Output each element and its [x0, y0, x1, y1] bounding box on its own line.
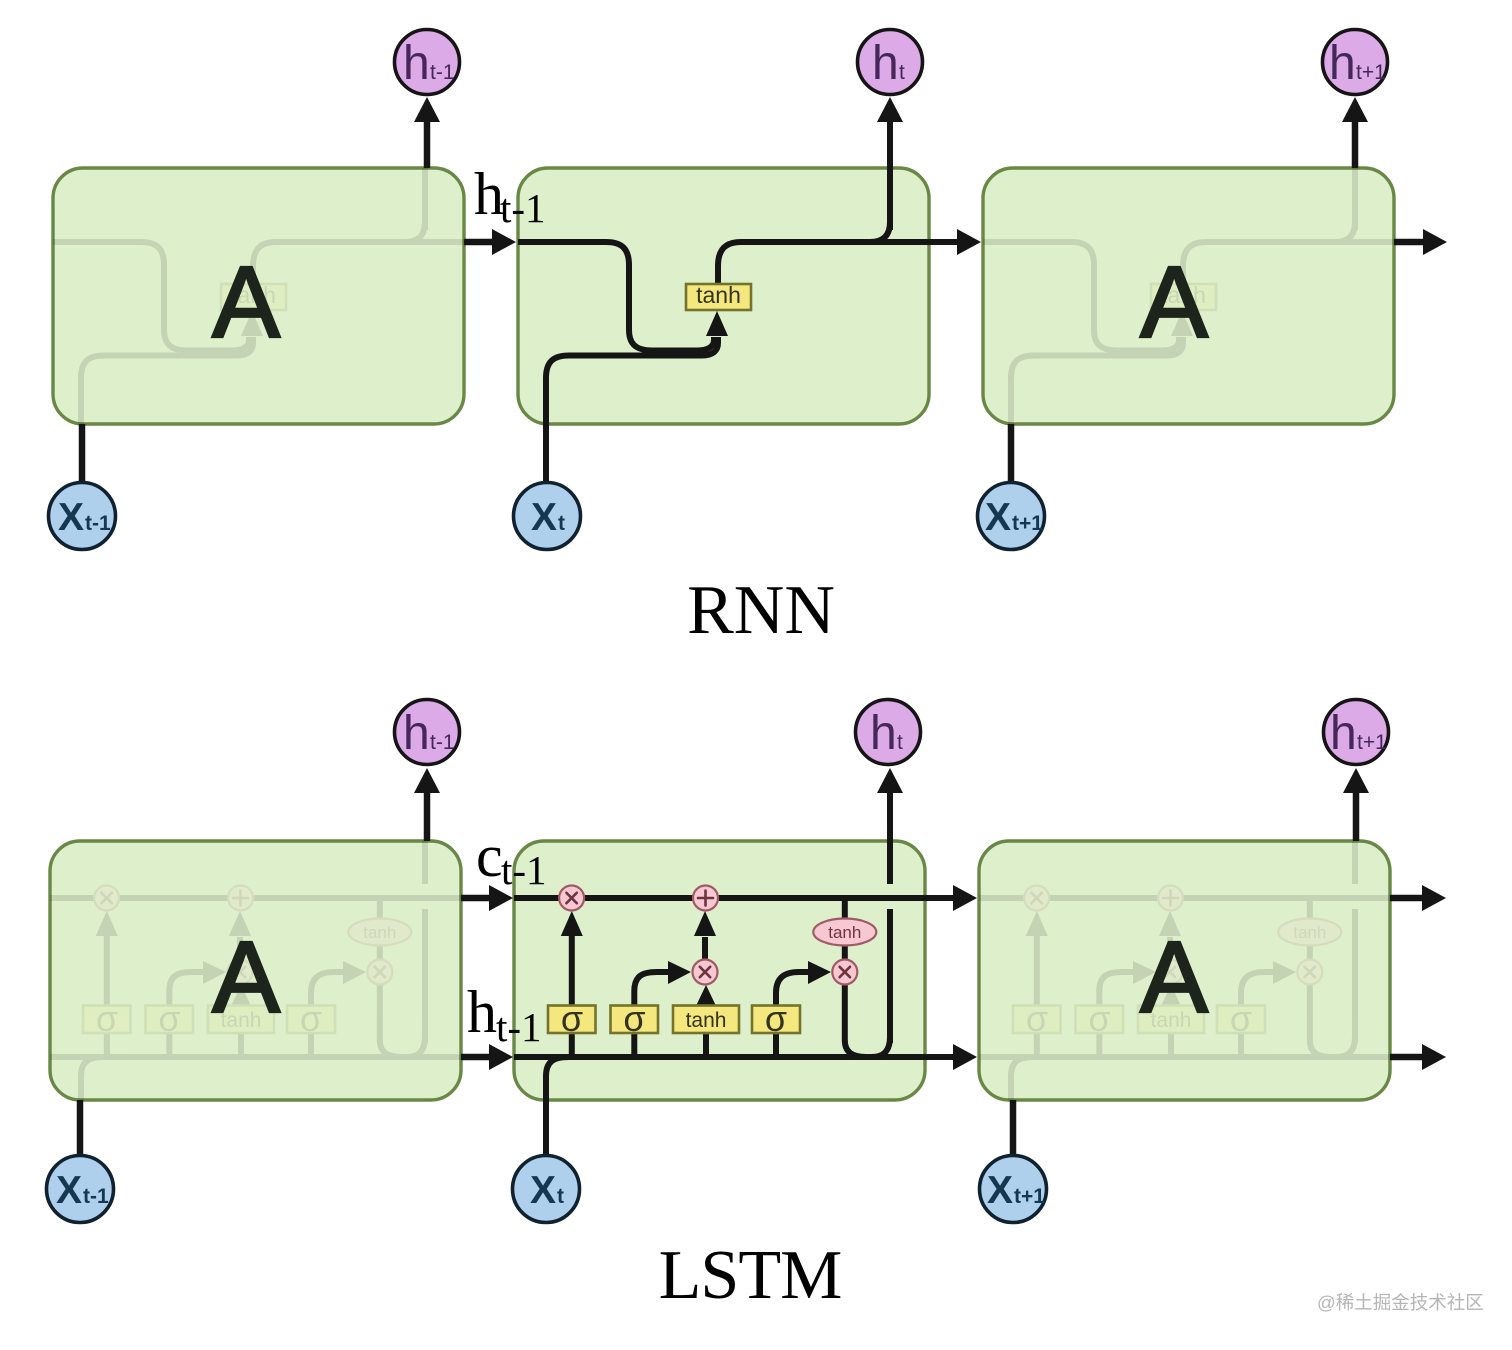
- svg-text:X: X: [531, 496, 557, 539]
- svg-text:X: X: [985, 496, 1011, 539]
- svg-text:t: t: [557, 1185, 564, 1208]
- node x(t) RNN: [514, 483, 581, 550]
- svg-text:t+1: t+1: [1012, 512, 1043, 535]
- arrow RNN middle to right: [957, 229, 981, 255]
- node x(t+1) RNN: [978, 483, 1045, 550]
- svg-text:t-1: t-1: [430, 61, 455, 84]
- RNN right x(t+1) stub: [1008, 424, 1015, 483]
- node x(t-1) LSTM: [47, 1156, 114, 1223]
- RNN cell box A(t): [518, 168, 929, 424]
- svg-text:t+1: t+1: [1357, 731, 1387, 754]
- faded internals LSTM right: [979, 790, 1419, 1156]
- svg-text:t+1: t+1: [1356, 61, 1386, 84]
- svg-text:t: t: [897, 731, 903, 754]
- node x(t+1) LSTM: [980, 1156, 1047, 1223]
- node h(t-1) RNN: [395, 30, 460, 95]
- svg-text:LSTM: LSTM: [659, 1237, 842, 1314]
- node h(t+1) RNN: [1323, 30, 1388, 95]
- svg-text:h: h: [870, 707, 897, 760]
- svg-text:h: h: [467, 979, 497, 1045]
- arrow LSTM middle to right c: [953, 885, 977, 911]
- svg-text:X: X: [56, 1169, 82, 1212]
- node h(t-1) LSTM: [395, 700, 460, 765]
- svg-text:X: X: [987, 1169, 1013, 1212]
- node h(t+1) LSTM: [1324, 700, 1389, 765]
- arrow LSTM middle to right h: [953, 1044, 977, 1070]
- svg-text:t-1: t-1: [83, 1185, 109, 1208]
- svg-text:t-1: t-1: [500, 185, 546, 231]
- arrow LSTM right h(t+1) up: [1353, 791, 1360, 841]
- svg-text:h: h: [872, 37, 899, 90]
- faded internals LSTM left: [49, 790, 489, 1156]
- faded internals RNN left: [53, 120, 492, 483]
- svg-text:h: h: [1329, 37, 1356, 90]
- svg-text:@稀土掘金技术社区: @稀土掘金技术社区: [1317, 1292, 1484, 1313]
- RNN middle cell internals: [518, 120, 957, 483]
- RNN left x(t-1) stub: [79, 424, 86, 483]
- node h(t) RNN: [858, 30, 923, 95]
- svg-text:A: A: [212, 247, 280, 359]
- arrow LSTM right exit h: [1390, 1054, 1424, 1061]
- node x(t-1) RNN: [49, 483, 116, 550]
- LSTM middle cell internals: [514, 790, 954, 1156]
- svg-text:c: c: [476, 823, 503, 889]
- svg-text:A: A: [1140, 247, 1208, 359]
- svg-text:X: X: [58, 496, 84, 539]
- svg-text:t: t: [558, 512, 565, 535]
- arrow h(t-1) into LSTM middle: [461, 1054, 493, 1061]
- svg-text:t-1: t-1: [85, 512, 111, 535]
- arrow LSTM left h(t-1) up: [424, 791, 431, 841]
- svg-text:h: h: [403, 37, 430, 90]
- node h(t) LSTM: [856, 700, 921, 765]
- arrow c(t-1) into LSTM middle: [461, 895, 493, 902]
- LSTM cell box A(t): [514, 841, 925, 1100]
- svg-text:t-1: t-1: [496, 1004, 542, 1050]
- LSTM cell box A(t+1): [979, 841, 1390, 1100]
- arrowhead LSTM middle h(t) up: [877, 768, 903, 793]
- svg-text:X: X: [530, 1169, 556, 1212]
- arrow RNN right h(t+1) up: [1352, 120, 1359, 168]
- svg-text:t-1: t-1: [430, 731, 455, 754]
- LSTM left x(t-1) stub: [77, 1100, 84, 1156]
- faded internals RNN right: [983, 120, 1422, 483]
- arrow LSTM right exit c: [1390, 895, 1424, 902]
- arrowhead RNN middle h(t) up: [877, 97, 903, 122]
- arrow RNN right exit: [1394, 239, 1425, 246]
- svg-text:h: h: [1330, 707, 1357, 760]
- LSTM right x(t+1) stub: [1010, 1100, 1017, 1156]
- node x(t) LSTM: [513, 1156, 580, 1223]
- svg-text:A: A: [212, 922, 280, 1034]
- RNN cell box A(t+1): [983, 168, 1394, 424]
- svg-text:t-1: t-1: [501, 847, 547, 893]
- svg-text:A: A: [1140, 922, 1208, 1034]
- svg-text:h: h: [403, 707, 430, 760]
- svg-text:t: t: [899, 61, 905, 84]
- arrow RNN left h(t-1) up: [424, 120, 431, 168]
- svg-text:t+1: t+1: [1014, 1185, 1045, 1208]
- arrow h(t-1) into RNN middle: [464, 239, 496, 246]
- RNN cell box A(t-1): [53, 168, 464, 424]
- svg-text:RNN: RNN: [687, 572, 835, 649]
- LSTM cell box A(t-1): [50, 841, 461, 1100]
